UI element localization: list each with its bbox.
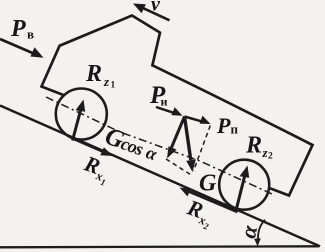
label Rx1 (rotated) [79, 150, 114, 187]
truck body outline [42, 16, 313, 196]
svg-text:R: R [245, 133, 262, 159]
svg-text:P: P [10, 16, 26, 42]
svg-text:п: п [231, 122, 239, 137]
svg-text:z: z [103, 74, 110, 89]
front wheel [56, 89, 107, 140]
label G cos alpha (rotated along slope) [101, 123, 162, 167]
svg-text:P: P [216, 113, 231, 138]
arrow Pi (inertia) [156, 107, 183, 116]
svg-text:v: v [151, 0, 161, 16]
arrow Rz2 (rear normal reaction) [236, 166, 249, 211]
arrow G (weight) [185, 117, 196, 173]
arrow Pp (grade resistance) [185, 116, 211, 124]
arrow v (velocity) [133, 4, 170, 21]
arrow Pv (air drag) [0, 39, 44, 58]
svg-text:1: 1 [111, 81, 116, 91]
angle arc with arrow [254, 220, 265, 247]
arrow Rz1 (front normal reaction) [73, 100, 86, 141]
arrow Rx2 (rear tangential reaction, up-slope) [180, 188, 238, 213]
arrow G cos a component [167, 117, 185, 159]
dashed parallelogram side right [194, 126, 211, 172]
svg-text:в: в [27, 27, 34, 42]
svg-text:G: G [199, 171, 217, 197]
axle dash-dot centerline [46, 97, 272, 194]
rear wheel [219, 160, 269, 210]
svg-text:и: и [161, 95, 168, 109]
dashed parallelogram side bottom [166, 159, 191, 175]
label Rx2 (rotated) [182, 194, 217, 232]
arrow Rx1 (front tangential reaction, down-slope) [74, 139, 113, 156]
svg-text:R: R [85, 61, 102, 87]
svg-text:2: 2 [268, 152, 273, 162]
label alpha (rotated) [235, 222, 262, 240]
road slope line [0, 106, 320, 247]
horizontal ground line [0, 246, 319, 247]
